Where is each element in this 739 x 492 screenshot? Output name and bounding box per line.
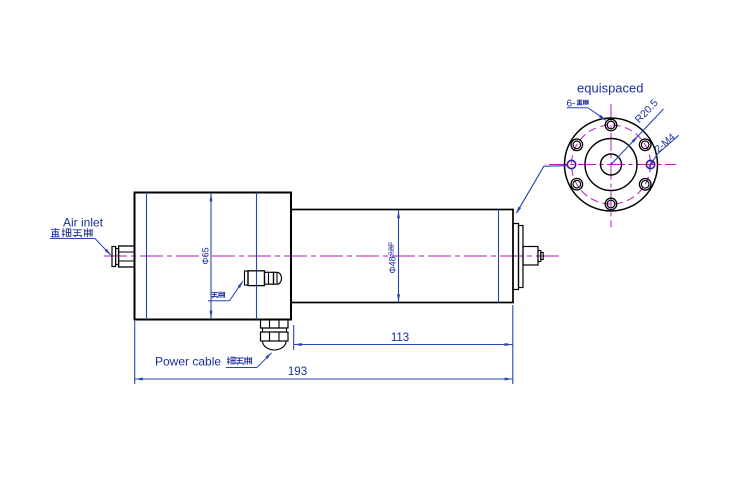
flange center bore circle (601, 154, 622, 175)
svg-text:Air inlet: Air inlet (63, 216, 104, 230)
label Air inlet (63, 216, 104, 230)
radius leader R20.5 (611, 97, 664, 165)
bolt hole 330 deg (639, 179, 651, 191)
body internal line left (146, 193, 148, 320)
nose flange ring 1 (513, 224, 519, 290)
bolt hole 30 deg (639, 139, 651, 151)
dimension diameter 65 (201, 193, 213, 318)
flange middle circle (585, 139, 637, 191)
M4 hole left (567, 160, 575, 168)
M4 hole right (646, 160, 654, 168)
label CJK power cable (226, 352, 272, 367)
svg-text:Φ65: Φ65 (201, 247, 211, 264)
label 6 equispaced CJK (567, 99, 607, 121)
svg-text:equispaced: equispaced (577, 81, 644, 96)
shaft (523, 247, 538, 266)
power cable gland collar (263, 328, 287, 332)
label Power cable (155, 355, 221, 369)
label equispaced (577, 81, 644, 96)
centerline spindle axis (104, 255, 562, 257)
svg-text:Power cable: Power cable (155, 355, 221, 369)
power cable gland lower nut (261, 332, 289, 341)
dimension 193 (135, 305, 513, 384)
body internal line right (256, 193, 258, 320)
spindle nose cylinder (48mm) (291, 210, 513, 303)
flange horizontal centerline (549, 164, 676, 166)
power cable gland dome (263, 341, 287, 350)
svg-text:193: 193 (288, 366, 307, 378)
bolt hole 150 deg (571, 139, 583, 151)
bolt hole 90 deg (605, 119, 617, 131)
svg-text:113: 113 (391, 332, 409, 344)
air cooling fitting ring (245, 271, 249, 285)
flange outer circle (565, 118, 658, 211)
air inlet fitting body (119, 246, 135, 267)
leader 2-M4 (648, 132, 679, 169)
air inlet fitting ring (116, 249, 119, 265)
label air cooling CJK (208, 281, 243, 301)
air cooling fitting body (248, 271, 265, 286)
spindle body (65mm housing) (135, 193, 292, 320)
bolt hole 210 deg (571, 178, 583, 190)
nose flange ring 2 (519, 226, 524, 288)
air cooling fitting nut (265, 272, 274, 284)
label CJK tool-change air inlet (50, 228, 111, 255)
power cable gland upper nut (261, 320, 289, 329)
nose internal line (498, 210, 500, 303)
shaft tip step 2 (541, 253, 543, 260)
bolt circle R20.5 dashed (572, 125, 651, 204)
flange vertical centerline (610, 104, 612, 228)
dimension 113 (294, 325, 513, 350)
air inlet fitting cap (112, 247, 116, 267)
dimension diameter 48 with tolerance (388, 210, 401, 302)
shaft tip step 1 (538, 251, 541, 262)
leader from M4 hole to spindle nose face (516, 166, 567, 215)
air cooling fitting round cap (274, 272, 282, 284)
bolt hole 270 deg (605, 198, 617, 210)
svg-text:-0.009: -0.009 (390, 244, 396, 258)
